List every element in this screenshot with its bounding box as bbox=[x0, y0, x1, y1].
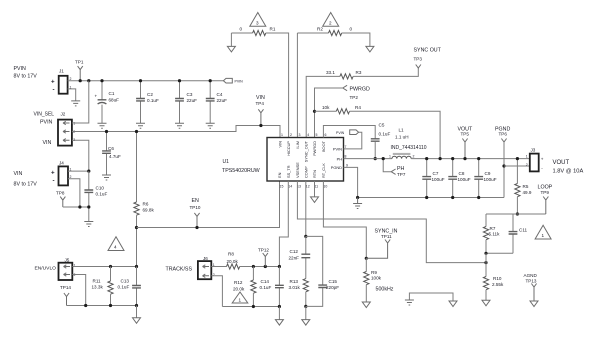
junction pin2 leg bbox=[84, 304, 87, 307]
svg-text:1: 1 bbox=[542, 233, 545, 238]
junction RT node bbox=[365, 257, 368, 260]
svg-text:VIN_SEL: VIN_SEL bbox=[34, 112, 55, 118]
svg-text:+: + bbox=[51, 170, 55, 177]
wire J6 pin2 down bbox=[211, 276, 222, 307]
resistor R5 bbox=[515, 159, 532, 214]
pin label RTN pin11 bbox=[312, 170, 318, 189]
label VOUT output bbox=[553, 160, 584, 174]
wire vsense feedback bbox=[297, 181, 486, 263]
junction C13 bottom bbox=[135, 304, 138, 307]
wire R8 to SS node bbox=[240, 266, 280, 268]
svg-text:8V to 17V: 8V to 17V bbox=[14, 74, 38, 80]
junction J3 pin2 wire bbox=[502, 164, 505, 167]
junction R4 riser at VOUT rail bbox=[439, 157, 442, 160]
wire J4 pin2 to gnd node bbox=[68, 179, 80, 207]
wire bottom row track bbox=[222, 306, 279, 308]
wire TP8 row bbox=[63, 206, 89, 208]
ground earth under C6 bbox=[102, 175, 111, 180]
svg-text:VSENSE: VSENSE bbox=[295, 162, 300, 178]
svg-text:1: 1 bbox=[281, 133, 283, 137]
svg-text:TP8: TP8 bbox=[56, 191, 65, 196]
junction PGND rail left bbox=[356, 196, 359, 199]
junction R11 top bbox=[109, 265, 112, 268]
svg-text:0: 0 bbox=[350, 27, 353, 32]
svg-text:TP3: TP3 bbox=[414, 57, 423, 62]
ground earth under J1 bbox=[71, 101, 80, 106]
wire R1 left to gnd bbox=[230, 33, 232, 46]
svg-text:R1: R1 bbox=[270, 27, 276, 32]
triangle note 2 bbox=[323, 13, 339, 27]
svg-text:TP1: TP1 bbox=[75, 60, 84, 65]
svg-text:TPS54020RUW: TPS54020RUW bbox=[222, 168, 260, 174]
ground earth under C2 bbox=[136, 123, 145, 128]
junction R4 tap bbox=[313, 110, 316, 113]
wire J6 pin1 to R8 bbox=[211, 266, 226, 268]
resistor R4 bbox=[315, 105, 362, 114]
svg-text:20.0k: 20.0k bbox=[227, 259, 239, 264]
resistor R11 bbox=[92, 267, 114, 306]
svg-text:COMP: COMP bbox=[303, 166, 308, 178]
wire PWRGD riser bbox=[315, 88, 343, 138]
pin label SYNC_OUT pin4 bbox=[304, 133, 310, 162]
svg-text:2: 2 bbox=[526, 163, 528, 167]
wire R3 to TP3 bbox=[353, 68, 418, 76]
capacitor C3 bbox=[175, 81, 197, 124]
pin label ILIM pin3 bbox=[295, 133, 301, 149]
svg-text:0.1uF: 0.1uF bbox=[260, 285, 272, 290]
junction R5 bottom bbox=[516, 212, 519, 215]
pin label VIN pin1 bbox=[278, 133, 284, 148]
junction C6-VIN wire bbox=[105, 130, 108, 133]
svg-text:8V to 17V: 8V to 17V bbox=[14, 182, 38, 188]
svg-text:R8: R8 bbox=[228, 252, 234, 257]
svg-text:0.1uF: 0.1uF bbox=[379, 132, 391, 137]
junction C8 bottom bbox=[451, 196, 454, 199]
svg-text:C11: C11 bbox=[519, 228, 528, 233]
resistor R2 bbox=[297, 27, 352, 36]
svg-text:PVIN: PVIN bbox=[336, 131, 345, 135]
wire BOOT to C5 bbox=[323, 126, 375, 139]
svg-text:AGND: AGND bbox=[524, 273, 538, 278]
wire box bottom to R10 bbox=[485, 253, 487, 276]
ground earth under C1 bbox=[98, 123, 107, 128]
svg-text:2.55k: 2.55k bbox=[492, 282, 504, 287]
svg-text:68uF: 68uF bbox=[109, 98, 120, 103]
svg-text:TP4: TP4 bbox=[256, 101, 265, 106]
pin label VSENSE pin13 bbox=[295, 162, 301, 189]
capacitor C11 bbox=[509, 214, 528, 253]
wire SS_TR to track node bbox=[279, 181, 288, 267]
svg-text:J4: J4 bbox=[59, 161, 64, 166]
wire R1 right to HICCUP bbox=[266, 33, 289, 138]
capacitor C2 bbox=[136, 81, 159, 124]
svg-text:C13: C13 bbox=[121, 278, 130, 283]
svg-text:TP13: TP13 bbox=[526, 279, 537, 284]
capacitor C9 bbox=[474, 159, 496, 198]
svg-text:6: 6 bbox=[325, 133, 327, 137]
svg-text:3: 3 bbox=[299, 133, 301, 137]
svg-text:100uF: 100uF bbox=[458, 177, 471, 182]
wire COMP down bbox=[305, 181, 307, 236]
test point TP13 AGND bbox=[524, 273, 539, 307]
svg-text:SYNC_OUT: SYNC_OUT bbox=[304, 140, 309, 162]
pin label EN pin15 bbox=[277, 172, 283, 188]
ground agnd triangle EN section bbox=[133, 318, 141, 324]
svg-text:15: 15 bbox=[280, 185, 284, 189]
svg-text:20.0k: 20.0k bbox=[233, 287, 245, 292]
test point TP1 bbox=[75, 60, 84, 81]
ground earth tie bbox=[405, 300, 414, 305]
junction loop box bottom-left bbox=[484, 252, 487, 255]
connector J5 EN/UVLO bbox=[35, 258, 76, 281]
wire R2 right to gnd bbox=[342, 33, 370, 46]
svg-text:J6: J6 bbox=[203, 256, 208, 261]
svg-text:C15: C15 bbox=[329, 279, 338, 284]
pin label SS_TR pin14 bbox=[286, 165, 292, 188]
wire SYNC_OUT riser bbox=[306, 76, 340, 137]
svg-text:HICCUP: HICCUP bbox=[286, 141, 291, 156]
connector J6 TRACK/SS bbox=[166, 256, 215, 279]
junction TP4 bbox=[259, 124, 262, 127]
svg-text:0: 0 bbox=[240, 27, 243, 32]
capacitor C13 bbox=[118, 267, 141, 306]
svg-text:J3: J3 bbox=[531, 148, 536, 153]
test point TP14 bbox=[60, 285, 71, 306]
wire J4 pin1 bbox=[68, 170, 89, 172]
triangle note 1 right bbox=[535, 225, 551, 239]
svg-text:EN/UVLO: EN/UVLO bbox=[35, 265, 57, 271]
triangle note 3 bbox=[250, 13, 266, 27]
junction C14 bottom bbox=[278, 305, 281, 308]
wire down to agnd bbox=[136, 306, 138, 318]
test point TP3 SYNC OUT bbox=[414, 48, 442, 69]
svg-text:1: 1 bbox=[74, 264, 76, 268]
svg-text:-: - bbox=[53, 178, 55, 185]
svg-text:TP7: TP7 bbox=[397, 172, 406, 177]
svg-text:1: 1 bbox=[239, 298, 242, 303]
svg-text:22uF: 22uF bbox=[187, 98, 198, 103]
svg-text:C6: C6 bbox=[108, 146, 114, 151]
resistor R13 bbox=[289, 279, 309, 307]
svg-text:3.01k: 3.01k bbox=[289, 285, 301, 290]
junction C5-PH rail bbox=[374, 157, 377, 160]
capacitor C8 bbox=[448, 159, 470, 198]
svg-text:8: 8 bbox=[345, 155, 347, 159]
ground agnd triangle RTN pin11 bbox=[311, 181, 319, 202]
svg-text:RT_CLK: RT_CLK bbox=[321, 163, 326, 178]
svg-text:R10: R10 bbox=[493, 276, 502, 281]
svg-text:14: 14 bbox=[288, 185, 292, 189]
junction pin2-row bbox=[78, 205, 81, 208]
svg-text:220pF: 220pF bbox=[326, 285, 339, 290]
svg-text:VOUT: VOUT bbox=[553, 160, 570, 166]
svg-text:5.11k: 5.11k bbox=[489, 232, 501, 237]
ground agnd triangle tie bbox=[449, 301, 457, 307]
test point TP12 bbox=[258, 248, 269, 267]
svg-text:+: + bbox=[95, 94, 98, 99]
svg-text:R11: R11 bbox=[93, 278, 102, 283]
junction R5 top bbox=[516, 157, 519, 160]
ground earth under C3 bbox=[175, 123, 184, 128]
capacitor C1 bbox=[95, 81, 120, 124]
wire PGND pin to rail bbox=[344, 167, 358, 197]
junction C9 top bbox=[477, 157, 480, 160]
junction R12 bottom bbox=[252, 305, 255, 308]
svg-text:100uF: 100uF bbox=[432, 177, 445, 182]
svg-text:R2: R2 bbox=[317, 27, 323, 32]
svg-text:R4: R4 bbox=[355, 105, 361, 110]
test point TP5 VOUT bbox=[458, 127, 473, 159]
svg-text:500kHz: 500kHz bbox=[376, 287, 394, 293]
junction C1-rail bbox=[100, 79, 103, 82]
ground agnd triangle track bbox=[275, 320, 283, 326]
ground earth under C4 bbox=[206, 123, 215, 128]
svg-text:C2: C2 bbox=[147, 92, 153, 97]
junction J4 pin1 node bbox=[87, 170, 90, 173]
svg-text:C12: C12 bbox=[290, 249, 299, 254]
svg-text:PVIN: PVIN bbox=[333, 147, 342, 152]
resistor R3 bbox=[326, 70, 362, 79]
svg-text:2: 2 bbox=[213, 273, 215, 277]
wire J3 pin2 bbox=[504, 165, 530, 167]
triangle note 1 middle bbox=[232, 292, 248, 303]
svg-text:J1: J1 bbox=[59, 69, 64, 74]
junction EN node bbox=[135, 226, 138, 229]
resistor R12 bbox=[233, 267, 256, 307]
svg-text:R12: R12 bbox=[234, 280, 243, 285]
junction C10-row bbox=[87, 205, 90, 208]
junction TP5 bbox=[463, 157, 466, 160]
svg-text:TP5: TP5 bbox=[461, 132, 470, 137]
svg-text:0.1uF: 0.1uF bbox=[96, 192, 108, 197]
wire J2 pin3 down to J4 bbox=[72, 140, 89, 171]
wire R2 left to ILIM bbox=[296, 33, 298, 138]
capacitor C15 parallel branch bbox=[306, 236, 339, 306]
pin label BOOT pin6 bbox=[321, 133, 327, 152]
junction J2 riser-rail bbox=[87, 79, 90, 82]
wire VIN to R6 column bbox=[136, 132, 138, 203]
connector J4 bbox=[51, 161, 72, 186]
test point TP2 PWRGD bbox=[343, 85, 370, 100]
svg-text:R9: R9 bbox=[371, 270, 377, 275]
svg-text:TP14: TP14 bbox=[60, 285, 71, 290]
wire R6 bottom to J5 bbox=[136, 215, 138, 266]
svg-text:PGND: PGND bbox=[331, 165, 342, 170]
wire loop box bottom bbox=[486, 252, 513, 254]
ground agnd triangle R2 bbox=[366, 46, 374, 52]
connector J2 VIN_SEL bbox=[34, 112, 76, 147]
triangle note 4 bbox=[108, 237, 124, 251]
capacitor C6 bbox=[102, 132, 121, 176]
capacitor C5 bbox=[371, 123, 391, 159]
svg-text:22nF: 22nF bbox=[289, 256, 300, 261]
svg-text:49.9: 49.9 bbox=[523, 190, 532, 195]
net flag PVIN top bbox=[223, 78, 243, 83]
svg-text:C10: C10 bbox=[96, 186, 105, 191]
junction C7 bottom bbox=[425, 196, 428, 199]
test point TP11 SYNC_IN bbox=[366, 229, 397, 259]
pin label HICCUP pin2 bbox=[286, 133, 292, 156]
wire J5 pin1 row bbox=[72, 266, 136, 268]
connector J1 bbox=[51, 69, 72, 94]
svg-text:4: 4 bbox=[114, 245, 117, 250]
op-amp U1 TPS54020RUW body bbox=[222, 138, 344, 182]
svg-text:VIN: VIN bbox=[278, 141, 283, 148]
test point TP4 VIN bbox=[256, 95, 266, 126]
capacitor C10 bbox=[84, 171, 107, 221]
test point TP8 bbox=[56, 191, 65, 208]
ground agnd triangle R9 bbox=[362, 302, 370, 308]
junction TP10-EN wire bbox=[195, 226, 198, 229]
svg-text:PWRGD: PWRGD bbox=[312, 141, 317, 156]
svg-text:C4: C4 bbox=[217, 92, 223, 97]
junction TP1-rail bbox=[79, 79, 82, 82]
wire gnd tie bracket bbox=[409, 293, 453, 301]
wire R4 to VOUT rail bbox=[350, 111, 441, 158]
svg-text:C9: C9 bbox=[485, 171, 491, 176]
svg-text:+: + bbox=[51, 79, 55, 86]
inductor L1 bbox=[389, 128, 427, 159]
svg-text:BOOT: BOOT bbox=[321, 140, 326, 152]
net flag PVIN at IC bbox=[336, 130, 362, 149]
svg-text:PWRGD: PWRGD bbox=[350, 86, 370, 92]
svg-text:1: 1 bbox=[389, 155, 391, 159]
junction R12 top bbox=[252, 265, 255, 268]
svg-text:RTN: RTN bbox=[312, 170, 317, 178]
svg-text:22uF: 22uF bbox=[217, 98, 228, 103]
test point TP10 EN bbox=[190, 198, 201, 228]
wire RT_CLK bbox=[323, 181, 366, 258]
junction COMP node bbox=[304, 235, 307, 238]
ground agnd triangle R1 bbox=[227, 46, 235, 52]
svg-text:+: + bbox=[541, 157, 544, 162]
svg-text:0.1uF: 0.1uF bbox=[118, 284, 130, 289]
ground earth under J4 bbox=[84, 222, 93, 227]
svg-text:PVIN: PVIN bbox=[40, 120, 53, 126]
test point TP6 PGND bbox=[495, 127, 510, 143]
wire J5 pin2 down bbox=[72, 275, 85, 306]
svg-text:PH: PH bbox=[337, 156, 343, 161]
wire J2 pin1 riser to rail bbox=[72, 81, 89, 123]
svg-text:0.1uF: 0.1uF bbox=[147, 98, 159, 103]
svg-text:VIN: VIN bbox=[14, 171, 23, 177]
svg-text:C5: C5 bbox=[379, 123, 385, 128]
svg-text:1: 1 bbox=[526, 154, 528, 158]
junction R6-VIN wire bbox=[135, 130, 138, 133]
svg-text:IND_744314110: IND_744314110 bbox=[391, 145, 427, 151]
pin label PH pin8 bbox=[337, 155, 347, 162]
svg-text:TP2: TP2 bbox=[350, 95, 359, 100]
connector J3 VOUT bbox=[526, 148, 544, 172]
pin label COMP pin12 bbox=[303, 166, 309, 189]
resistor R6 bbox=[134, 202, 155, 216]
wire loop row bbox=[486, 213, 546, 215]
resistor R7 bbox=[483, 214, 500, 253]
junction R11 bottom bbox=[109, 304, 112, 307]
svg-text:U1: U1 bbox=[223, 159, 230, 165]
svg-text:PVIN: PVIN bbox=[14, 66, 27, 72]
svg-text:R13: R13 bbox=[290, 279, 299, 284]
svg-text:10k: 10k bbox=[322, 105, 330, 110]
svg-text:4: 4 bbox=[307, 133, 309, 137]
label PVIN input bbox=[14, 66, 38, 80]
pin label PGND pin9 bbox=[331, 163, 348, 170]
svg-text:PVIN: PVIN bbox=[235, 79, 244, 83]
svg-text:R6: R6 bbox=[143, 202, 149, 207]
wire PH rail bbox=[344, 158, 393, 160]
svg-text:7: 7 bbox=[345, 145, 347, 149]
wire EN to IC pin15 bbox=[137, 181, 280, 228]
svg-text:3: 3 bbox=[256, 20, 259, 25]
svg-text:100k: 100k bbox=[371, 276, 382, 281]
junction C3-rail bbox=[178, 79, 181, 82]
junction vsense at divider bbox=[484, 261, 487, 264]
ground agnd triangle comp bbox=[302, 320, 310, 326]
capacitor C7 bbox=[422, 159, 444, 198]
svg-text:C8: C8 bbox=[459, 171, 465, 176]
svg-text:1.1 uH: 1.1 uH bbox=[395, 135, 409, 140]
svg-text:SYNC OUT: SYNC OUT bbox=[414, 48, 442, 54]
wire VOUT rail bbox=[411, 158, 530, 160]
resistor R1 bbox=[231, 27, 275, 36]
capacitor C12 bbox=[289, 236, 311, 278]
resistor R10 bbox=[483, 276, 504, 300]
svg-text:EN: EN bbox=[277, 172, 282, 178]
junction C13 top bbox=[135, 265, 138, 268]
junction C2-rail bbox=[139, 79, 142, 82]
svg-text:L1: L1 bbox=[399, 128, 405, 133]
svg-text:1.8V @ 10A: 1.8V @ 10A bbox=[553, 168, 584, 174]
svg-text:R7: R7 bbox=[490, 226, 496, 231]
svg-text:TP12: TP12 bbox=[258, 248, 269, 253]
capacitor C14 bbox=[260, 267, 284, 307]
svg-text:2: 2 bbox=[413, 155, 415, 159]
svg-text:13.3k: 13.3k bbox=[92, 284, 104, 289]
resistor R9 bbox=[364, 258, 382, 302]
wire J1 pin1 to ground bbox=[68, 89, 76, 101]
svg-text:J5: J5 bbox=[65, 258, 70, 263]
label VIN input bbox=[14, 171, 38, 188]
wire TP6/PGND riser bbox=[503, 142, 505, 198]
svg-text:2: 2 bbox=[329, 20, 332, 25]
junction C14 top bbox=[278, 265, 281, 268]
pin label PWRGD pin5 bbox=[312, 133, 318, 156]
junction C7 top bbox=[425, 157, 428, 160]
svg-text:SS_TR: SS_TR bbox=[286, 165, 291, 178]
junction C8 top bbox=[451, 157, 454, 160]
svg-text:11: 11 bbox=[315, 185, 319, 189]
wire to agnd track bbox=[278, 307, 280, 320]
wire to agnd comp bbox=[305, 306, 307, 319]
junction C4-rail bbox=[209, 79, 212, 82]
junction TP12 bbox=[264, 265, 267, 268]
svg-text:C3: C3 bbox=[187, 92, 193, 97]
test point TP7 PH bbox=[383, 159, 406, 177]
junction C9 bottom bbox=[477, 196, 480, 199]
pin label RT_CLK pin10 bbox=[321, 163, 327, 189]
ground agnd triangle R10 bbox=[482, 300, 490, 306]
svg-text:12: 12 bbox=[306, 185, 310, 189]
svg-text:C1: C1 bbox=[109, 91, 115, 96]
svg-text:C7: C7 bbox=[433, 171, 439, 176]
junction R13 bottom bbox=[304, 305, 307, 308]
svg-text:R5: R5 bbox=[523, 184, 529, 189]
svg-text:-: - bbox=[53, 87, 55, 94]
svg-text:69.8k: 69.8k bbox=[143, 208, 155, 213]
svg-text:ILIM: ILIM bbox=[295, 141, 300, 149]
svg-text:R3: R3 bbox=[356, 70, 362, 75]
test point TP9 LOOP bbox=[538, 185, 553, 215]
